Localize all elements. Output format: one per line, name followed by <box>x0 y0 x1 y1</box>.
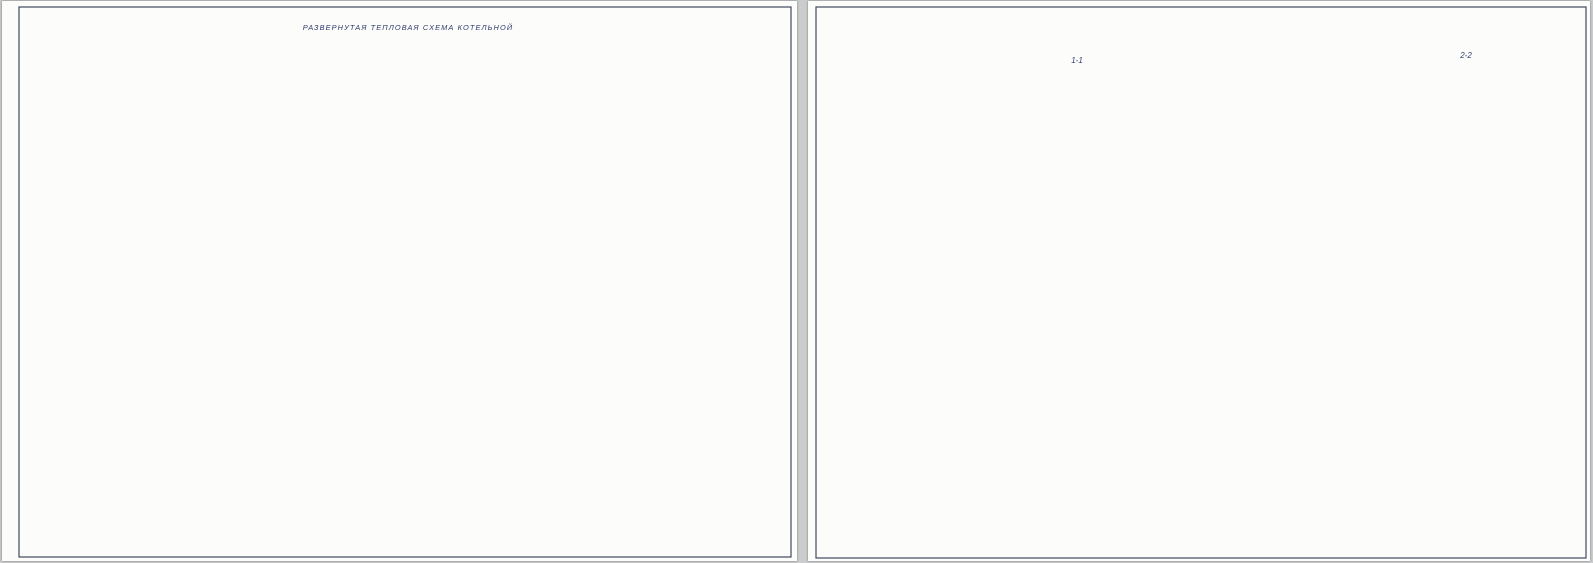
right sheet: plans and sections <box>808 1 1590 561</box>
drawing frame <box>19 7 791 557</box>
left sheet: boiler thermal scheme <box>2 1 797 561</box>
svg-text:РАЗВЕРНУТАЯ ТЕПЛОВАЯ СХЕМА КОТ: РАЗВЕРНУТАЯ ТЕПЛОВАЯ СХЕМА КОТЕЛЬНОЙ <box>303 23 513 32</box>
svg-text:1-1: 1-1 <box>1071 56 1083 65</box>
svg-text:2-2: 2-2 <box>1459 51 1472 60</box>
drawing frame <box>816 7 1586 558</box>
